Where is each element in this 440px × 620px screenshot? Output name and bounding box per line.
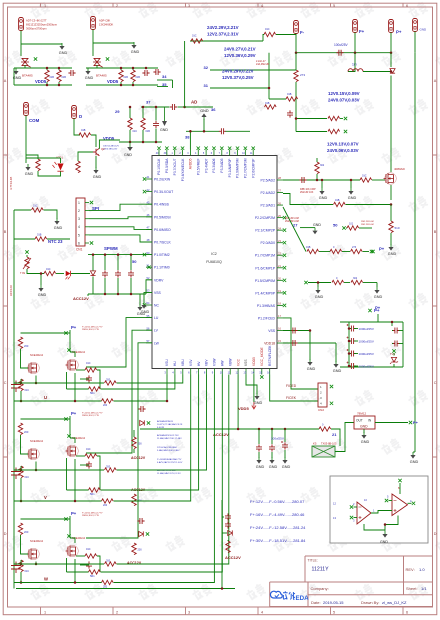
svg-text:F+:16V......F-:4.49V.......280: F+:16V......F-:4.49V.......280.46 <box>250 512 305 517</box>
IC pin 17 P1.2/FCED <box>277 317 283 319</box>
IC pin 50 P1.0/TIM2 <box>146 254 152 256</box>
svg-text:P3.3/AD6: P3.3/AD6 <box>212 158 216 172</box>
resistor <box>105 468 117 472</box>
wire TV5 bottom <box>393 364 395 367</box>
resistor <box>85 554 97 558</box>
resistor R01B-1 <box>45 70 49 82</box>
svg-text:273: 273 <box>352 246 357 249</box>
junction <box>20 563 23 566</box>
wire <box>349 340 351 342</box>
svg-text:01C: 01C <box>86 548 91 551</box>
wire <box>20 560 22 564</box>
svg-text:NC: NC <box>154 304 159 308</box>
resistor <box>18 523 22 535</box>
wire to inductor <box>348 53 355 72</box>
junction <box>74 400 77 403</box>
wire phase W left <box>14 582 102 584</box>
svg-text:4: 4 <box>261 4 263 8</box>
IC pin 22 P1.7/CMP1M <box>277 254 283 256</box>
no-connect X CN1 pin1 <box>90 201 93 204</box>
ground G16 <box>376 287 378 290</box>
IC top pin P3.1/AMP0P <box>229 150 231 156</box>
svg-text:50: 50 <box>333 223 338 228</box>
ground arrow G3 <box>164 107 166 121</box>
wire P2 down <box>92 30 94 57</box>
svg-text:2019-05-15: 2019-05-15 <box>323 600 344 605</box>
svg-text:01C: 01C <box>86 362 91 365</box>
svg-text:F-: F- <box>300 30 305 35</box>
wire P+ feed <box>377 314 379 322</box>
svg-text:01C: 01C <box>25 570 30 573</box>
svg-text:GND: GND <box>131 50 140 54</box>
svg-text:GND: GND <box>93 175 102 179</box>
svg-text:NCE40H12: NCE40H12 <box>30 353 44 357</box>
IC top pin P0.0/SDA <box>166 150 168 156</box>
capacitor C38 <box>219 128 226 134</box>
wire <box>117 255 119 270</box>
IC pin 16 VSS <box>277 329 283 331</box>
svg-text:01B: 01B <box>50 76 55 79</box>
junction <box>316 179 319 182</box>
svg-text:P+10/12.4BV,12.7TV: P+10/12.4BV,12.7TV <box>82 327 103 329</box>
junction <box>120 67 123 70</box>
svg-text:TVS: TVS <box>390 352 395 356</box>
svg-text:24V2.29V,2.21V: 24V2.29V,2.21V <box>207 25 239 30</box>
svg-text:11211Y: 11211Y <box>312 567 330 573</box>
no-connect X top pin <box>212 147 215 150</box>
IC pin 51 P1.1/TIM0 <box>146 266 152 268</box>
svg-text:P2.4/AD2: P2.4/AD2 <box>260 191 275 195</box>
svg-text:P3.5/VREF: P3.5/VREF <box>196 159 200 176</box>
junction <box>354 51 357 54</box>
wire to GND2 <box>93 42 134 44</box>
capacitor C01-3 <box>153 69 160 75</box>
wire SPWM bottom rail <box>88 293 146 295</box>
capacitor C01-1 <box>68 70 75 76</box>
wire NTC bottom <box>27 269 44 274</box>
junction <box>130 253 133 256</box>
wire V P+ drop <box>69 416 71 438</box>
wire Q2 collector <box>99 140 120 149</box>
IC pin 42 P0.3/LXOUT <box>146 191 152 193</box>
svg-text:510: 510 <box>395 226 400 230</box>
junction <box>132 67 135 70</box>
svg-text:5: 5 <box>333 610 335 614</box>
wire <box>92 277 94 295</box>
wire GND long vertical <box>414 53 416 452</box>
resistor R01B-2 <box>57 70 61 82</box>
resistor R273-2 <box>351 249 363 253</box>
IC pin 55 LU <box>146 317 152 319</box>
inductor L1 <box>348 69 363 72</box>
ground G15 <box>317 287 319 290</box>
op-amp U8A <box>357 502 371 524</box>
MOSFET <box>66 546 76 557</box>
IC bottom pin VBV <box>206 369 208 375</box>
wire VDD18 right <box>283 342 336 344</box>
IC pin 46 P0.5/MOSI <box>146 216 152 218</box>
svg-text:5R1: 5R1 <box>90 575 95 578</box>
capacitor CE4 1000uf <box>349 363 356 369</box>
wire U P+ drop <box>69 330 71 352</box>
svg-text:A: A <box>434 79 437 83</box>
wire W fet2 src <box>74 559 76 583</box>
svg-text:1000uf/25V: 1000uf/25V <box>359 352 374 356</box>
wire net35 <box>157 86 168 88</box>
wire VSW <box>114 375 215 583</box>
svg-text:01B: 01B <box>62 76 67 79</box>
svg-text:GND: GND <box>160 128 168 132</box>
svg-text:SPWM: SPWM <box>104 246 118 251</box>
no-connect X top pin <box>173 147 176 150</box>
svg-text:F+: F+ <box>359 29 365 34</box>
svg-text:2M2.2R1.0M: 2M2.2R1.0M <box>361 221 374 223</box>
no-connect X <box>64 517 67 520</box>
svg-text:3: 3 <box>78 217 80 221</box>
connector <box>91 17 96 30</box>
ground G17 <box>309 359 311 362</box>
wire left rail long <box>13 210 15 589</box>
svg-text:Sheet:: Sheet: <box>406 586 418 591</box>
svg-text:34: 34 <box>162 74 167 79</box>
resistor R0-4 <box>332 280 344 284</box>
junction <box>130 293 133 296</box>
resistor R01B-4 <box>131 70 135 82</box>
wire <box>354 353 358 355</box>
IC bottom pin VCC <box>237 369 239 375</box>
svg-text:P+10/12.4BV,12.7TV: P+10/12.4BV,12.7TV <box>82 513 103 515</box>
svg-text:VBU: VBU <box>181 359 185 366</box>
junction <box>155 106 158 109</box>
resistor <box>18 337 22 349</box>
wire U rg right <box>97 370 100 389</box>
wire V rg right <box>97 456 100 490</box>
resistor <box>89 387 101 391</box>
resistor R101 <box>347 226 359 230</box>
wire <box>92 255 94 271</box>
junction <box>350 179 353 182</box>
no-connect X top pin <box>252 147 255 150</box>
LED LED2 <box>66 271 71 277</box>
wire gnd vertical end <box>413 451 415 453</box>
svg-text:29: 29 <box>115 109 120 114</box>
no-connect X U8B v+ <box>398 479 401 482</box>
wire to Q2 base <box>91 135 96 147</box>
wire <box>363 251 370 253</box>
capacitor C01C U big <box>11 381 21 393</box>
svg-text:P+: P+ <box>71 325 77 330</box>
wire LED1 top <box>26 157 61 159</box>
wire <box>20 478 22 501</box>
capacitor C-vdd18b <box>290 340 297 346</box>
wire U8A in- stub <box>354 517 358 519</box>
svg-text:zl_ws_DJ_KZ: zl_ws_DJ_KZ <box>382 600 407 605</box>
wire net38 <box>186 130 220 132</box>
wire 101 right <box>359 227 372 229</box>
ground up G4 <box>203 117 205 120</box>
wire <box>392 343 393 345</box>
IC bottom pin HU <box>174 369 176 375</box>
svg-text:3: 3 <box>188 4 190 8</box>
svg-text:GND: GND <box>319 196 328 200</box>
no-connect X left pin <box>143 253 146 256</box>
wire vertical feed <box>184 41 186 107</box>
capacitor C01C W big <box>11 562 21 574</box>
wire <box>155 107 157 121</box>
capacitor <box>282 442 288 449</box>
resistor <box>132 543 136 555</box>
svg-text:LW: LW <box>154 341 160 345</box>
junction <box>317 281 320 284</box>
wire U7 gnd <box>363 429 365 433</box>
wire CN1 p4 to MISO <box>89 227 152 230</box>
junction <box>391 321 394 324</box>
svg-text:2: 2 <box>116 4 118 8</box>
svg-text:P3.2/AD5: P3.2/AD5 <box>220 158 224 172</box>
wire triac2 out <box>96 65 98 68</box>
wire cap bank bottom <box>340 366 403 368</box>
svg-text:200: 200 <box>103 504 108 507</box>
no-connect X P+3 <box>368 309 371 312</box>
wire V gate wire <box>67 489 89 491</box>
op-amp box border <box>330 476 428 543</box>
IC pin 18 P1.3/HB/AS <box>277 304 283 306</box>
wire VSS right <box>283 330 310 332</box>
svg-text:6.0L2R: 6.0L2R <box>157 427 164 429</box>
svg-text:U: U <box>44 395 47 400</box>
junction <box>155 141 158 144</box>
svg-text:1000uf/25V: 1000uf/25V <box>359 327 374 331</box>
svg-text:CN2: CN2 <box>318 408 324 412</box>
wire <box>258 429 260 444</box>
MOSFET <box>66 360 76 371</box>
wire r2 bot <box>58 82 60 85</box>
wire <box>104 278 106 294</box>
wire Q2 emitter <box>95 156 97 168</box>
svg-text:VDD18: VDD18 <box>264 342 275 346</box>
svg-text:GND: GND <box>13 76 22 80</box>
junction <box>203 130 206 133</box>
svg-text:V: V <box>44 495 47 500</box>
wire V fet2 src <box>74 459 76 501</box>
IC top pin P2.6/CMP3P <box>252 150 254 156</box>
resistor R01B-b <box>265 105 277 109</box>
wire net37 <box>141 106 170 108</box>
wire <box>284 429 286 442</box>
capacitor C-vdd18a <box>290 328 297 334</box>
ground G11 <box>143 302 145 305</box>
junction <box>120 84 123 87</box>
resistor R510 <box>389 221 393 233</box>
svg-text:12V0.36V,0.29V: 12V0.36V,0.29V <box>224 53 256 58</box>
wire <box>80 564 89 566</box>
junction op-amp gnd <box>384 523 387 526</box>
wire Q3 source <box>390 185 392 200</box>
capacitor C-r1 <box>299 177 306 183</box>
wire U8B out stub <box>408 502 412 504</box>
svg-text:Drawn By:: Drawn By: <box>361 600 379 605</box>
wire <box>390 233 392 245</box>
svg-text:01B: 01B <box>124 76 129 79</box>
svg-text:C: C <box>434 381 437 385</box>
wire <box>308 282 331 284</box>
svg-text:GND: GND <box>361 440 370 444</box>
wire F+ drop <box>354 33 356 53</box>
wire VSS to gnd <box>246 375 257 395</box>
svg-text:FICEK: FICEK <box>286 396 297 400</box>
IC bottom pin VBW <box>229 369 231 375</box>
wire P1 down <box>20 31 22 57</box>
wire <box>227 540 229 541</box>
svg-text:200: 200 <box>138 443 143 446</box>
junction <box>189 130 192 133</box>
resistor <box>315 162 319 174</box>
svg-text:D: D <box>434 532 437 536</box>
resistor R01C-e <box>32 208 44 212</box>
wire VSS gnd <box>144 292 152 303</box>
diode <box>140 420 145 425</box>
svg-text:P2.2/CMP2M: P2.2/CMP2M <box>255 216 275 220</box>
svg-text:01B: 01B <box>136 76 141 79</box>
frame column ticks <box>40 3 42 615</box>
svg-text:P+: P+ <box>71 411 77 416</box>
resistor <box>19 560 23 572</box>
connector <box>389 20 394 33</box>
wire U gate1 <box>21 349 29 368</box>
svg-text:01B: 01B <box>306 246 311 249</box>
svg-text:01B: 01B <box>335 199 340 202</box>
svg-text:P1.1/TIM0: P1.1/TIM0 <box>154 266 170 270</box>
wire <box>132 68 134 70</box>
wire <box>393 353 395 356</box>
wire VDD5 down <box>253 375 255 403</box>
svg-text:P+: P+ <box>379 247 385 252</box>
capacitor C37 <box>170 104 177 110</box>
svg-text:ACC12V: ACC12V <box>225 555 241 560</box>
wire <box>155 129 157 143</box>
IC pin 27 P2.4/AD2 <box>277 192 283 194</box>
no-connect X lower <box>304 281 307 284</box>
no-connect X top pin <box>157 147 160 150</box>
wire sense1 <box>296 118 327 120</box>
wire to G8 <box>44 210 58 219</box>
resistor R01C-top2 <box>264 32 276 36</box>
wire U fet1 src <box>35 376 37 384</box>
IC pin 25 P2.2/CMP2M <box>277 217 283 219</box>
wire <box>271 429 273 444</box>
wire <box>20 391 22 401</box>
wire LU route <box>86 318 152 367</box>
wire <box>319 251 330 253</box>
svg-text:1: 1 <box>44 4 46 8</box>
junction <box>117 293 120 296</box>
wire P+ drop <box>390 33 392 53</box>
wire V rg left <box>76 455 85 457</box>
svg-text:5.0AV,2AV5.30K,0.3BV: 5.0AV,2AV5.30K,0.3BV <box>157 449 180 452</box>
no-connect X <box>64 417 67 420</box>
no-connect X right pin <box>283 216 286 219</box>
svg-text:01B: 01B <box>146 130 151 133</box>
svg-text:VCC: VCC <box>236 358 240 366</box>
svg-text:IC2: IC2 <box>211 252 217 256</box>
svg-text:01C: 01C <box>133 130 138 133</box>
wire <box>133 449 135 453</box>
ground G22 <box>271 457 273 460</box>
svg-text:VDD5: VDD5 <box>252 357 256 366</box>
no-connect X U8B in+ <box>385 499 388 502</box>
no-connect X near P+ <box>371 250 374 253</box>
wire AD2 net <box>283 179 360 181</box>
IC pin 23 P2.0/AD0 <box>277 242 283 244</box>
svg-text:11.4AV,2AV2.12V,2.2.5V: 11.4AV,2AV2.12V,2.2.5V <box>157 472 181 475</box>
IC bottom pin VCC_MODE <box>261 369 263 375</box>
svg-text:24V0.29V,0.22V: 24V0.29V,0.22V <box>222 69 254 74</box>
svg-text:VSU: VSU <box>165 359 169 366</box>
svg-text:01C: 01C <box>25 389 30 392</box>
wire VDRV branch <box>146 280 152 294</box>
capacitor C-spwm2 <box>115 270 121 277</box>
svg-text:P3.4/AD7: P3.4/AD7 <box>204 158 208 172</box>
svg-text:AD: AD <box>191 100 197 105</box>
capacitor C-acc1 <box>256 444 262 451</box>
junction <box>268 87 271 90</box>
no-connect X left pin <box>143 190 146 193</box>
svg-text:ACC12V: ACC12V <box>213 432 229 437</box>
wire VBV <box>117 375 207 471</box>
wire <box>350 180 352 188</box>
svg-text:38: 38 <box>185 135 190 140</box>
wire rail2b <box>86 84 158 86</box>
wire <box>20 572 22 583</box>
svg-text:HV: HV <box>197 361 201 366</box>
capacitor C-spwm3 <box>128 270 134 277</box>
wire <box>129 130 131 142</box>
junction <box>74 500 77 503</box>
svg-text:1/1: 1/1 <box>421 586 427 591</box>
svg-text:P2.3/AD1: P2.3/AD1 <box>260 204 275 208</box>
svg-text:GND: GND <box>420 28 428 32</box>
wire FICEK <box>270 375 318 402</box>
wire VCC to rail <box>237 375 239 430</box>
ground G14 <box>390 244 392 247</box>
IC bottom pin HV <box>198 369 200 375</box>
capacitor CE1 1000uf <box>349 326 356 332</box>
capacitor C-spwm1 <box>102 270 108 277</box>
wire W rg left <box>76 555 85 557</box>
MOSFET <box>66 446 76 457</box>
connector <box>294 21 299 34</box>
wire U gate drop <box>66 372 68 389</box>
svg-text:P+10/5BVR4AO2A8.7TV: P+10/5BVR4AO2A8.7TV <box>157 458 182 461</box>
wire <box>222 516 224 518</box>
op-amp U8B <box>392 494 408 516</box>
svg-text:200: 200 <box>138 549 143 552</box>
svg-text:100uf25V: 100uf25V <box>334 43 349 47</box>
svg-text:3: 3 <box>188 610 190 614</box>
connector <box>19 18 24 31</box>
svg-text:HW: HW <box>221 360 225 366</box>
junction <box>20 400 23 403</box>
wire V fet2 drain <box>70 438 75 443</box>
IC bottom pin VSU <box>166 369 168 375</box>
wire CN1 p5 to SCLK <box>89 235 152 242</box>
svg-text:302: 302 <box>353 277 358 280</box>
no-connect X top pin <box>165 147 168 150</box>
svg-text:4: 4 <box>261 610 263 614</box>
wire inductor out <box>363 71 391 73</box>
wire <box>284 450 286 458</box>
wire NTC right <box>47 238 70 240</box>
